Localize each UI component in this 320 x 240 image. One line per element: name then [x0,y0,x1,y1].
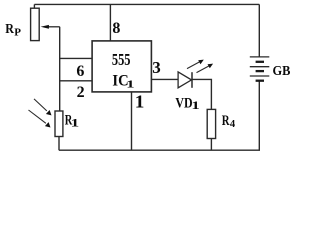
svg-text:P: P [14,27,21,39]
photoresistor R1 body [55,111,63,137]
wire R1 bottom lead [58,137,60,151]
wire pin 1 drop [131,92,133,150]
wire R4 bottom lead [210,139,212,151]
wire battery negative lead (right vertical lower) [258,81,260,151]
wire left bus from wiper down to R1 [59,27,61,111]
battery GB long plate 3 [250,75,269,77]
LED VD1 cathode bar [191,72,193,88]
svg-text:R: R [222,113,230,129]
battery GB short plate 1 [256,61,264,63]
wire top rail [34,3,259,5]
LED light emission arrow 1 [187,60,204,69]
photoresistor light arrow 2 [29,110,51,128]
potentiometer RP wiper arrow [41,25,60,29]
resistor R4 body [207,109,215,138]
svg-text:1: 1 [126,79,134,91]
svg-text:4: 4 [230,119,236,130]
photoresistor light arrow 1 [34,99,52,116]
555 timer IC1 body [92,41,151,92]
LED light emission arrow 2 [197,64,214,73]
svg-text:555: 555 [112,50,131,69]
svg-text:6: 6 [76,63,84,80]
label R4 [222,113,236,130]
label RP [5,22,21,38]
wire pin 6 [60,57,92,59]
label IC1 [112,72,134,90]
label VD1 [175,95,199,112]
wire pin 3 [151,78,178,80]
svg-text:2: 2 [77,84,85,101]
svg-text:GB: GB [273,64,291,79]
wire potentiometer top lead [33,4,35,8]
battery GB long plate 1 [250,56,269,58]
wire pin 2 [60,80,92,82]
wire bottom rail [59,149,260,151]
battery GB short plate 2 [256,70,264,72]
svg-text:VD: VD [175,95,192,111]
svg-text:8: 8 [112,20,120,37]
svg-text:1: 1 [135,92,145,111]
potentiometer RP body [31,8,40,40]
wire battery positive lead (right vertical upper) [258,4,260,57]
svg-text:1: 1 [191,99,199,112]
svg-text:1: 1 [71,117,80,130]
battery GB short plate 3 [256,80,264,82]
label R1 [65,112,79,129]
battery GB long plate 2 [250,66,269,68]
LED VD1 triangle (anode) [178,72,191,88]
svg-text:3: 3 [152,58,161,77]
wire LED cathode to R4 corner [192,79,211,109]
wire pin 8 riser [109,4,111,41]
